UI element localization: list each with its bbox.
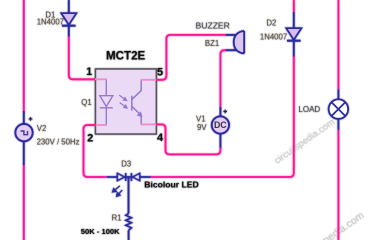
svg-text:LOAD: LOAD (298, 105, 320, 114)
diode D2 (286, 12, 301, 57)
svg-text:BUZZER: BUZZER (196, 20, 230, 30)
svg-text:1N4007: 1N4007 (37, 18, 64, 27)
wire: mains to D2 anode (293, 0, 295, 13)
wire: AC mains left vertical (bottom of V2) (23, 164, 25, 240)
svg-text:9V: 9V (197, 123, 207, 132)
wire: opto pin 5 up and right to buzzer (156, 35, 227, 80)
opto internal phototransistor (132, 80, 141, 125)
optocoupler U1 MCT2E body (96, 69, 157, 134)
svg-text:230V / 50Hz: 230V / 50Hz (37, 137, 80, 146)
svg-text:Bicolour LED: Bicolour LED (144, 179, 198, 189)
diode D1 upper lead (68, 0, 70, 14)
diode D1 (61, 13, 76, 37)
svg-text:BZ1: BZ1 (205, 39, 219, 48)
wire: R1 bottom lead (128, 230, 130, 240)
wire: buzzer bottom lead to V1 plus (220, 50, 226, 109)
wire: mains right vertical to LOAD (top) (337, 0, 339, 91)
opto internal light arrows (119, 95, 127, 108)
svg-text:5: 5 (157, 66, 163, 78)
wire: D1 cathode to opto pin 1 (69, 37, 96, 80)
wire: pin 1 stub inside opto (95, 78, 107, 80)
DC source V1 (212, 107, 229, 149)
svg-text:D2: D2 (266, 19, 276, 28)
svg-text:2: 2 (87, 133, 93, 145)
bicolour LED D3 (107, 173, 151, 181)
wire: pin 4 stub inside opto (141, 123, 157, 125)
svg-text:4: 4 (157, 132, 164, 144)
wire: opto pin 2 down to bicolour LED net (84, 125, 108, 177)
svg-text:R1: R1 (112, 213, 122, 222)
opto emitter arrow (137, 112, 142, 117)
D3 light emission arrows (113, 186, 123, 197)
wire: AC mains left vertical (top of V2) (23, 0, 25, 113)
svg-text:D3: D3 (121, 160, 131, 169)
wire: V1 minus to opto pin 4 (156, 124, 220, 154)
opto internal LED (100, 79, 113, 125)
buzzer BZ1 (226, 31, 244, 53)
wire: D3 centre tap down to R1 (128, 177, 130, 214)
svg-text:MCT2E: MCT2E (106, 50, 146, 63)
wire: pin 5 stub inside opto (141, 79, 157, 81)
lamp LOAD (329, 90, 348, 131)
wire: LOAD bottom vertical (337, 130, 339, 240)
AC source V2 (15, 111, 32, 165)
svg-text:1N4007: 1N4007 (260, 33, 287, 42)
svg-text:50K - 100K: 50K - 100K (81, 227, 120, 236)
wire: pin 2 stub inside opto (95, 124, 107, 126)
svg-text:V2: V2 (37, 124, 47, 133)
svg-text:Q1: Q1 (81, 98, 91, 107)
svg-text:DC: DC (214, 120, 227, 130)
resistor R1 (126, 214, 132, 231)
wire: D2 cathode down to bicolour LED net (150, 57, 294, 178)
svg-text:1: 1 (86, 66, 92, 78)
